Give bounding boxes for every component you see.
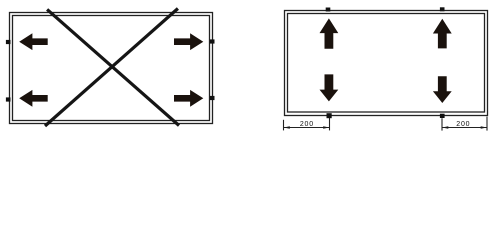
dimension left arrowhead west: [284, 126, 290, 128]
diagonal brace 1: [47, 9, 179, 125]
dimension left extension line B: [329, 118, 331, 130]
panel B inner frame: [288, 14, 485, 113]
dimension right label 200: [456, 121, 470, 128]
panel A outer frame: [10, 13, 213, 124]
arrow right top (points right): [174, 33, 203, 50]
dimension right extension line B: [486, 117, 488, 131]
dimension left label 200: [300, 121, 314, 128]
dimension right arrowhead west: [442, 126, 448, 128]
svg-text:200: 200: [456, 121, 470, 128]
arrow down left (points down): [320, 74, 339, 101]
arrow left top (points left): [19, 33, 48, 50]
handle top edge left: [326, 8, 331, 12]
panel B outer frame: [285, 11, 488, 116]
dimension left line: [284, 127, 330, 129]
svg-text:200: 200: [300, 121, 314, 128]
handle bottom edge right: [440, 114, 445, 118]
handle bottom edge left: [327, 113, 332, 118]
arrow down right (points down): [433, 76, 452, 103]
panel A inner frame: [13, 16, 210, 121]
handle right edge top: [210, 39, 215, 43]
arrow right bottom (points right): [174, 90, 203, 107]
dimension left arrowhead east: [323, 126, 329, 128]
diagonal brace 2: [45, 9, 178, 127]
handle right edge bottom: [210, 96, 215, 100]
handle left edge top: [6, 40, 11, 44]
dimension right extension line A: [441, 118, 443, 130]
handle top edge right: [440, 7, 445, 11]
arrow left bottom (points left): [19, 90, 48, 107]
handle left edge bottom: [6, 97, 11, 101]
arrow up left (points up): [320, 18, 339, 48]
arrow up right (points up): [433, 19, 452, 49]
dimension right arrowhead east: [481, 126, 487, 128]
dimension right line: [442, 127, 487, 129]
dimension left extension line A: [283, 120, 285, 131]
